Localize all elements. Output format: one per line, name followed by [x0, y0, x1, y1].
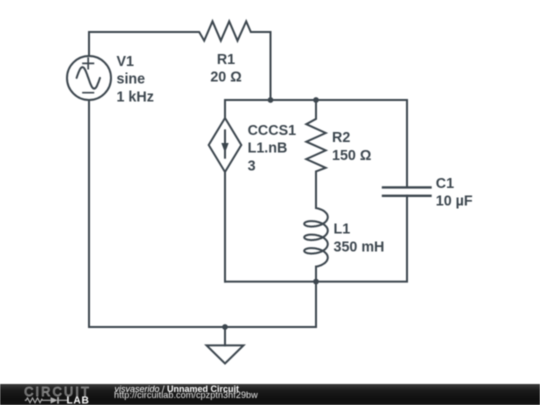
svg-text:LAB: LAB	[67, 396, 90, 405]
svg-text:R2: R2	[332, 130, 350, 146]
svg-text:R1: R1	[217, 52, 235, 68]
svg-text:L1: L1	[334, 222, 351, 238]
svg-text:L1.nB: L1.nB	[248, 141, 288, 157]
svg-text:sine: sine	[117, 72, 146, 88]
svg-text:1 kHz: 1 kHz	[117, 89, 154, 105]
svg-text:20 Ω: 20 Ω	[210, 70, 241, 86]
svg-text:150 Ω: 150 Ω	[332, 148, 371, 164]
svg-text:10 µF: 10 µF	[436, 194, 473, 210]
svg-text:V1: V1	[117, 54, 135, 70]
svg-text:350 mH: 350 mH	[334, 239, 385, 255]
svg-text:3: 3	[248, 158, 256, 174]
svg-text:C1: C1	[436, 176, 454, 192]
svg-text:CCCS1: CCCS1	[248, 123, 297, 139]
